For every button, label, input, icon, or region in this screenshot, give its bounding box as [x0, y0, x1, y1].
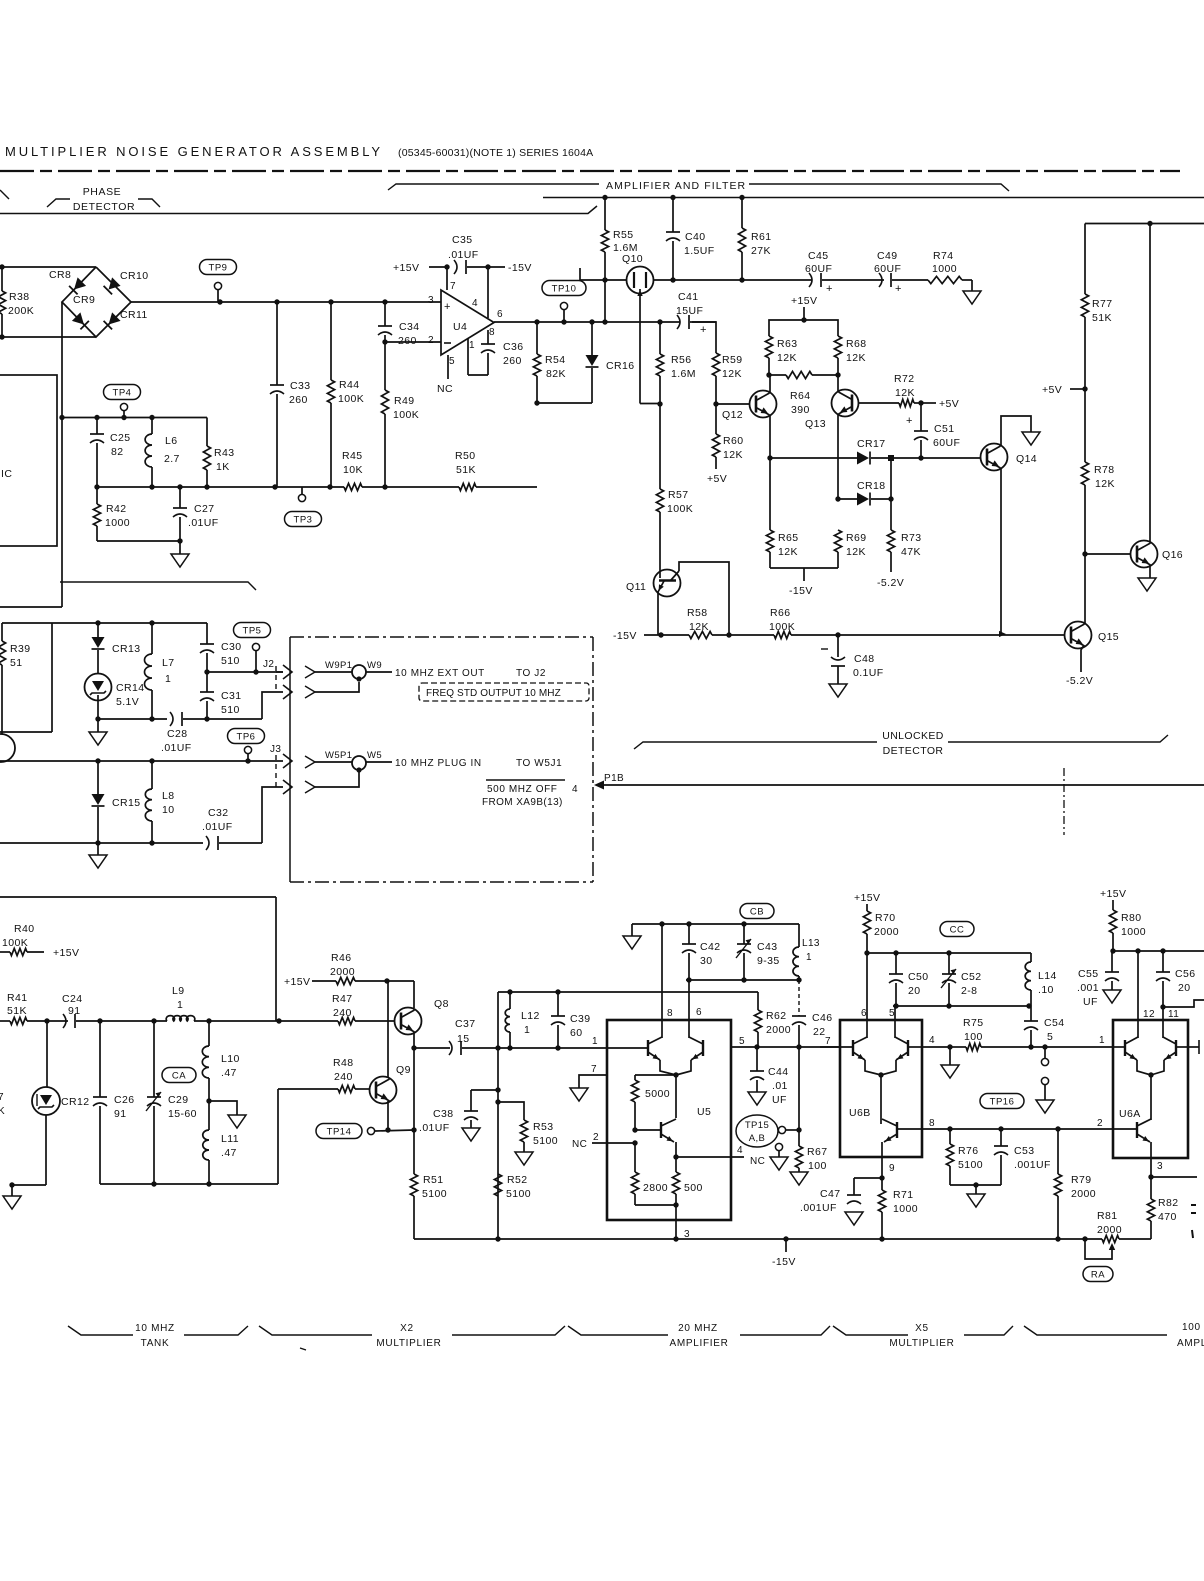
transistor left edge clipped [0, 734, 15, 762]
svg-text:R73: R73 [901, 532, 921, 544]
svg-text:J2: J2 [263, 659, 274, 670]
resistor R76 [949, 1129, 951, 1144]
svg-text:C24: C24 [62, 993, 82, 1005]
wire U6B emitter chain [880, 1075, 882, 1124]
inductor L11 [208, 1101, 210, 1130]
svg-text:510: 510 [221, 704, 240, 716]
ground below CR12 row [11, 1185, 13, 1196]
svg-text:L8: L8 [162, 790, 174, 802]
svg-text:U4: U4 [453, 321, 467, 333]
capacitor C36 feedback loop [487, 330, 489, 344]
svg-text:47K: 47K [901, 546, 921, 558]
svg-text:1K: 1K [216, 461, 230, 473]
svg-text:MULTIPLIER: MULTIPLIER [889, 1338, 954, 1349]
svg-text:-15V: -15V [508, 262, 532, 274]
wire W9 lower [305, 686, 315, 698]
inductor L12 [509, 992, 511, 1009]
svg-text:CR11: CR11 [120, 309, 148, 321]
svg-text:7: 7 [0, 1092, 4, 1103]
inductor L13 [798, 924, 800, 947]
svg-text:.001: .001 [1077, 982, 1099, 994]
svg-text:9: 9 [889, 1163, 895, 1174]
svg-text:Q11: Q11 [626, 581, 646, 593]
svg-text:10 MHZ PLUG IN: 10 MHZ PLUG IN [395, 758, 482, 769]
svg-text:TP3: TP3 [294, 515, 313, 526]
svg-text:12K: 12K [1095, 478, 1115, 490]
svg-text:100K: 100K [769, 621, 795, 633]
wire U6A emitter chain [1150, 1075, 1152, 1120]
wire -15V bottom rail [414, 1238, 1102, 1240]
rail C56 out [1163, 1000, 1204, 1007]
svg-text:2: 2 [428, 335, 434, 346]
power label -15V stub [785, 1239, 787, 1252]
wire U6A pin12 [1137, 951, 1139, 1038]
IC U6A box [1113, 1020, 1188, 1158]
svg-text:R44: R44 [339, 379, 359, 391]
wire R59 to Q12 base [716, 403, 749, 405]
test point TP9 [200, 260, 237, 275]
wire signal row to U6A pin1 [1020, 1046, 1113, 1048]
diode CR9 [72, 312, 89, 329]
svg-text:8: 8 [667, 1008, 673, 1019]
svg-text:.01UF: .01UF [188, 517, 219, 529]
capacitor C28 [170, 712, 173, 726]
op-amp U4 [441, 290, 494, 355]
adjust label CB [740, 904, 774, 919]
right margin marks [1191, 1204, 1196, 1206]
svg-text:2000: 2000 [766, 1024, 791, 1036]
svg-text:R58: R58 [687, 607, 707, 619]
svg-text:+15V: +15V [284, 976, 310, 988]
svg-text:1: 1 [524, 1024, 530, 1036]
svg-text:FROM XA9B(13): FROM XA9B(13) [482, 797, 563, 808]
section label 100 MHZ AMPLIFIER clipped [1024, 1326, 1167, 1335]
svg-text:R43: R43 [214, 447, 234, 459]
resistor R64 [769, 374, 786, 376]
pin right side stub [1176, 1046, 1188, 1048]
U6A input transistor right [1175, 1040, 1177, 1056]
svg-text:C32: C32 [208, 807, 228, 819]
svg-text:TP14: TP14 [327, 1127, 352, 1138]
U6B input transistor right [907, 1040, 909, 1056]
resistor R51 [413, 1048, 415, 1174]
Q8 emitter node [413, 1032, 415, 1048]
svg-text:U6A: U6A [1119, 1108, 1141, 1120]
svg-text:C48: C48 [854, 653, 874, 665]
wire C37 row [414, 1047, 450, 1049]
capacitor C35 [454, 260, 457, 274]
pin 9 wire [881, 1157, 883, 1178]
svg-text:60UF: 60UF [805, 263, 832, 275]
wire Q10 gate to R56 node [639, 322, 641, 404]
capacitor C24 [63, 1014, 66, 1028]
svg-text:C28: C28 [167, 728, 187, 740]
wire U6A pin11 [1162, 1007, 1164, 1038]
svg-text:2800: 2800 [643, 1182, 668, 1194]
ground below Q16 [1149, 565, 1151, 578]
test point TP10 [542, 281, 586, 296]
svg-text:.47: .47 [221, 1147, 237, 1159]
svg-text:AMPLIFIER AND FILTER: AMPLIFIER AND FILTER [606, 180, 746, 192]
svg-text:L12: L12 [521, 1010, 540, 1022]
svg-text:100K: 100K [2, 937, 28, 949]
resistor R70 [863, 911, 870, 934]
Q14 collector to ground [1001, 416, 1031, 446]
svg-text:UF: UF [1083, 996, 1098, 1008]
rail tank top [2, 622, 207, 624]
svg-text:R48: R48 [333, 1057, 353, 1069]
wire U4 pin2 [385, 341, 441, 343]
svg-text:1: 1 [1099, 1035, 1105, 1046]
svg-text:L10: L10 [221, 1053, 240, 1065]
svg-text:1000: 1000 [932, 263, 957, 275]
transistor Q12 [750, 391, 777, 418]
svg-text:27K: 27K [751, 245, 771, 257]
svg-text:CA: CA [172, 1071, 186, 1082]
svg-text:CR8: CR8 [49, 269, 71, 281]
svg-text:C54: C54 [1044, 1017, 1064, 1029]
wire U5 pin8 [661, 924, 663, 1038]
svg-text:30: 30 [700, 955, 712, 967]
ground below R67 [790, 1172, 808, 1185]
svg-text:R38: R38 [9, 291, 29, 303]
svg-text:C55: C55 [1078, 968, 1098, 980]
svg-text:C30: C30 [221, 641, 241, 653]
svg-text:0.1UF: 0.1UF [853, 667, 884, 679]
capacitor C44 [756, 1047, 758, 1071]
ground pin4 node [949, 1047, 951, 1065]
svg-text:4: 4 [472, 298, 478, 309]
wire 10MHz main row [0, 760, 283, 762]
svg-text:MULTIPLIER NOISE GENERATOR ASS: MULTIPLIER NOISE GENERATOR ASSEMBLY [5, 144, 383, 159]
connector W9P1 W9 [305, 666, 315, 678]
ground below C48 [829, 684, 847, 697]
wire U5 pin6 [688, 980, 690, 1038]
svg-text:FREQ STD OUTPUT 10 MHZ: FREQ STD OUTPUT 10 MHZ [426, 688, 561, 699]
diode CR18 [857, 493, 869, 506]
svg-text:-5.2V: -5.2V [877, 577, 904, 589]
resistor R72 [899, 399, 914, 406]
rail CB bottom [686, 979, 799, 981]
svg-text:.01UF: .01UF [161, 742, 192, 754]
svg-text:+: + [826, 283, 833, 295]
svg-text:+5V: +5V [707, 473, 727, 485]
capacitor C33 [276, 302, 278, 385]
svg-text:Q12: Q12 [722, 409, 743, 421]
U5 input transistor right [702, 1040, 704, 1056]
svg-text:W5P1: W5P1 [325, 750, 352, 761]
capacitor C39 [557, 992, 559, 1016]
resistor R63 [765, 336, 772, 358]
resistor R43 [206, 418, 208, 447]
wire J2 out row [207, 671, 283, 673]
test point TP14 [316, 1124, 362, 1139]
test point TP16 [1044, 1047, 1046, 1058]
transistor Q14 [981, 444, 1008, 471]
wire common emitter down [675, 1075, 677, 1118]
resistor R79 [1057, 1129, 1059, 1174]
wire U4 output row [494, 321, 680, 323]
svg-text:2000: 2000 [1071, 1188, 1096, 1200]
resistor R38 [1, 267, 3, 291]
svg-text:CR16: CR16 [606, 360, 634, 372]
ground CB rail [631, 924, 633, 936]
svg-text:12: 12 [1143, 1009, 1155, 1020]
inductor L8 [151, 761, 153, 789]
ground TP15 B [770, 1157, 788, 1170]
wire -15V bar below R65 R69 [770, 567, 838, 569]
U6A input transistor left [1124, 1040, 1126, 1056]
ground below C55 [1103, 990, 1121, 1003]
resistor R57 [659, 404, 661, 489]
capacitor C38 [471, 1089, 498, 1091]
capacitor C42 [688, 924, 690, 944]
wire bridge output to U4 input [131, 301, 441, 303]
resistor R42 [96, 487, 98, 504]
svg-text:5.1V: 5.1V [116, 696, 139, 708]
wire to Q14 base [921, 457, 981, 459]
svg-text:510: 510 [221, 655, 240, 667]
IC box left edge [0, 375, 57, 546]
svg-text:R71: R71 [893, 1189, 913, 1201]
svg-text:C51: C51 [934, 423, 954, 435]
wire top left to bridge [0, 266, 96, 268]
svg-text:C49: C49 [877, 250, 897, 262]
svg-text:15: 15 [457, 1033, 469, 1045]
svg-text:100: 100 [808, 1160, 827, 1172]
ground below CR15 [97, 843, 99, 855]
svg-text:1000: 1000 [105, 517, 130, 529]
svg-text:1: 1 [165, 673, 171, 685]
inductor L14 [1030, 953, 1032, 962]
svg-text:DETECTOR: DETECTOR [73, 201, 135, 213]
svg-text:R74: R74 [933, 250, 953, 262]
svg-text:-5.2V: -5.2V [1066, 675, 1093, 687]
capacitor C49 [879, 273, 882, 287]
svg-text:X2: X2 [400, 1323, 414, 1334]
resistor R65 [769, 458, 771, 530]
svg-text:TP9: TP9 [209, 263, 228, 274]
pin 3 wire [1150, 1158, 1152, 1177]
capacitor C25 [96, 418, 98, 435]
svg-text:CB: CB [750, 907, 764, 918]
Q11 emitter down [658, 581, 664, 592]
resistor R82 [1150, 1177, 1152, 1199]
svg-text:1.6M: 1.6M [671, 368, 696, 380]
svg-text:Q13: Q13 [805, 418, 826, 430]
svg-text:C29: C29 [168, 1094, 188, 1106]
svg-text:L13: L13 [802, 938, 820, 949]
resistor R50 [459, 483, 476, 490]
Q9 emitter down [387, 1101, 389, 1130]
svg-text:R60: R60 [723, 435, 743, 447]
phase detector underline [0, 206, 597, 214]
resistor R53 [498, 1102, 524, 1120]
svg-text:CR17: CR17 [857, 438, 885, 450]
svg-text:R68: R68 [846, 338, 866, 350]
svg-text:12K: 12K [723, 449, 743, 461]
capacitor C56 [1162, 951, 1164, 972]
svg-text:4: 4 [572, 784, 578, 795]
svg-text:11: 11 [1168, 1009, 1179, 1020]
svg-text:20: 20 [908, 985, 920, 997]
svg-text:NC: NC [437, 383, 453, 395]
resistor R52 [494, 1174, 501, 1196]
svg-text:+: + [906, 415, 913, 427]
svg-text:.47: .47 [221, 1067, 237, 1079]
svg-text:6: 6 [696, 1007, 702, 1018]
connector P1B wire [594, 781, 604, 790]
svg-text:C45: C45 [808, 250, 828, 262]
svg-text:91: 91 [114, 1108, 126, 1120]
capacitor C48 [837, 635, 839, 657]
svg-text:C40: C40 [685, 231, 705, 243]
svg-text:R63: R63 [777, 338, 797, 350]
resistor R73 [887, 530, 894, 552]
svg-text:R52: R52 [507, 1174, 527, 1186]
svg-text:+5V: +5V [1042, 384, 1062, 396]
svg-text:TP16: TP16 [990, 1097, 1015, 1108]
svg-text:12K: 12K [778, 546, 798, 558]
resistor R46 [336, 977, 355, 984]
svg-text:R40: R40 [14, 923, 34, 935]
connector W5P1 W5 [305, 756, 315, 768]
resistor R40 [0, 951, 10, 953]
svg-text:5100: 5100 [958, 1159, 983, 1171]
svg-text:.01: .01 [772, 1080, 788, 1092]
svg-text:12K: 12K [895, 387, 915, 399]
svg-text:NC: NC [572, 1139, 587, 1150]
rail CB top [632, 923, 799, 925]
wire CR17 row [770, 457, 857, 459]
U6B lower transistor [896, 1122, 898, 1138]
diode CR8 [69, 277, 86, 294]
resistor R45 [344, 483, 362, 490]
pin 4 wire [908, 1046, 922, 1048]
svg-text:C36: C36 [503, 341, 523, 353]
top rail wire [543, 197, 1204, 199]
junction pad [888, 455, 894, 461]
resistor R55 [604, 198, 606, 231]
wire R42 to C27 bottom [97, 540, 180, 542]
svg-text:7: 7 [591, 1064, 597, 1075]
Q14 emitter wire down [1000, 468, 1002, 634]
svg-text:1: 1 [469, 340, 475, 351]
resistor R74 [928, 276, 962, 283]
resistor R54 [536, 322, 538, 354]
variable capacitor C43 [743, 924, 745, 944]
svg-text:51K: 51K [456, 464, 476, 476]
zener CR12 [46, 1021, 48, 1087]
svg-text:R56: R56 [671, 354, 691, 366]
ground below C47 [845, 1212, 863, 1225]
diode CR16 [591, 322, 593, 355]
svg-text:500 MHZ OFF: 500 MHZ OFF [487, 784, 558, 795]
svg-text:5: 5 [1047, 1031, 1053, 1043]
svg-text:5100: 5100 [506, 1188, 531, 1200]
transistor Q16 [1085, 553, 1131, 555]
svg-text:R79: R79 [1071, 1174, 1091, 1186]
diode CR15 [97, 761, 99, 794]
svg-text:C27: C27 [194, 503, 214, 515]
resistor R66 [774, 631, 791, 638]
test point TP3 [301, 487, 303, 494]
svg-text:470: 470 [1158, 1211, 1177, 1223]
svg-text:A,B: A,B [749, 1133, 766, 1144]
chain divider right [1063, 768, 1065, 835]
rail top right U6A [1112, 950, 1204, 952]
svg-text:1: 1 [592, 1036, 598, 1047]
wire Q13 base to R72 [858, 402, 899, 404]
ground branch L10 L11 node [209, 1101, 237, 1115]
capacitor C54 [1029, 1005, 1031, 1007]
svg-text:+15V: +15V [854, 892, 880, 904]
svg-text:82: 82 [111, 446, 123, 458]
svg-text:C47: C47 [820, 1188, 840, 1200]
svg-text:+15V: +15V [393, 262, 419, 274]
capacitor C51 [920, 403, 922, 431]
svg-text:+: + [700, 324, 707, 336]
svg-text:-15V: -15V [613, 630, 637, 642]
svg-text:10 MHZ: 10 MHZ [135, 1323, 175, 1334]
svg-text:6: 6 [861, 1008, 867, 1019]
svg-text:2000: 2000 [330, 966, 355, 978]
wire +15V to Q8 collector [413, 981, 415, 1008]
svg-text:C46: C46 [812, 1012, 832, 1024]
resistor R71 [881, 1178, 883, 1190]
svg-text:-15V: -15V [772, 1256, 796, 1268]
section label X5 MULTIPLIER [833, 1326, 908, 1335]
svg-text:.01UF: .01UF [419, 1122, 450, 1134]
svg-text:R64: R64 [790, 390, 810, 402]
svg-text:Q9: Q9 [396, 1064, 411, 1076]
svg-text:15UF: 15UF [676, 305, 703, 317]
diode CR17 [857, 452, 869, 465]
svg-text:100K: 100K [338, 393, 364, 405]
inductor L7 [151, 623, 153, 654]
pin 8 wire [897, 1128, 922, 1130]
svg-text:PHASE: PHASE [83, 186, 122, 198]
svg-text:R45: R45 [342, 450, 362, 462]
adjust label CC [940, 922, 974, 937]
svg-text:8: 8 [489, 327, 495, 338]
inductor L6 [151, 418, 153, 435]
svg-text:R66: R66 [770, 607, 790, 619]
rail R63 R68 top [769, 320, 838, 336]
wire main row with R45 R50 [97, 486, 344, 488]
svg-text:R47: R47 [332, 993, 352, 1005]
capacitor C27 [179, 487, 181, 508]
U5 input transistor left [647, 1040, 649, 1056]
svg-text:200K: 200K [8, 305, 34, 317]
svg-text:P1B: P1B [604, 773, 624, 784]
svg-text:C50: C50 [908, 971, 928, 983]
svg-text:C44: C44 [768, 1066, 788, 1078]
svg-text:C41: C41 [678, 291, 698, 303]
svg-text:UF: UF [772, 1094, 787, 1106]
inductor L9 [166, 1016, 195, 1021]
svg-text:R50: R50 [455, 450, 475, 462]
svg-text:12K: 12K [722, 368, 742, 380]
resistor R77 [1084, 224, 1086, 295]
wire R54 to CR16 [537, 402, 592, 404]
svg-text:2000: 2000 [874, 926, 899, 938]
section label AMPLIFIER AND FILTER with brace [388, 184, 599, 190]
svg-text:CR18: CR18 [857, 480, 885, 492]
svg-text:R41: R41 [7, 992, 27, 1004]
svg-text:+: + [444, 301, 451, 313]
svg-text:CR12: CR12 [61, 1096, 89, 1108]
